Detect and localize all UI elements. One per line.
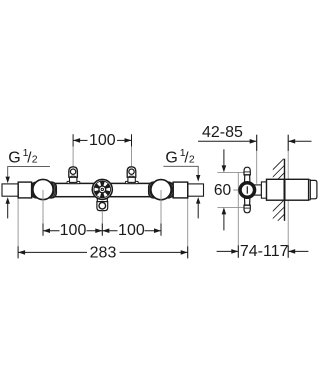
dimension 283 (bottom) (18, 246, 188, 258)
top fitting left: flange (67, 181, 80, 183)
extension line 42-85 left (256, 151, 258, 184)
svg-text:G: G (8, 149, 20, 166)
wall line below body (284, 200, 286, 221)
dimension 100 (top) (73, 134, 131, 146)
valve adapter (261, 182, 266, 198)
svg-text:2: 2 (189, 153, 195, 165)
handwheel hub (99, 186, 106, 193)
left sleeve (18, 182, 31, 198)
extension line right fitting center (131, 146, 133, 166)
leader G 1/2 left (8, 167, 50, 177)
svg-text:100: 100 (60, 222, 87, 239)
wall hatch below (270, 194, 290, 236)
centerline right valve (160, 190, 162, 236)
handwheel outer circle (92, 179, 112, 199)
svg-text:2: 2 (32, 153, 38, 165)
bottom outlet body (97, 202, 108, 211)
svg-text:G: G (165, 149, 177, 166)
handwheel inner ring (94, 181, 111, 198)
knurl arcs left valve (29, 176, 57, 204)
extension line wall bottom (287, 200, 289, 245)
wall line above body (284, 159, 286, 180)
extension line 283 right (187, 198, 189, 258)
main tube (18, 183, 188, 196)
cross handle hub inner (241, 184, 253, 196)
cross handle hub ring (238, 181, 256, 199)
leader G 1/2 right (163, 166, 198, 175)
knurl arcs right valve (147, 176, 175, 204)
extension line left fitting center (72, 146, 74, 166)
left valve circle (33, 179, 53, 199)
extension line 283 left (17, 198, 19, 258)
body end cap (310, 180, 317, 198)
top fitting right: dome (127, 167, 136, 177)
right valve circle (151, 180, 171, 200)
centerline valve axis (233, 189, 263, 191)
svg-text:42-85: 42-85 (202, 124, 243, 141)
top fitting right: port circle (129, 169, 134, 174)
handwheel spoke annulus (94, 181, 111, 198)
top fitting right: shoulder curve (128, 176, 135, 177)
svg-text:100: 100 (118, 222, 145, 239)
top fitting left: neck (70, 177, 77, 183)
bottom outlet port circle (99, 202, 106, 209)
arrow under right pipe (196, 197, 200, 204)
arrow under left pipe (6, 197, 10, 204)
cross handle bottom spoke (244, 205, 250, 213)
handwheel center hole (101, 188, 103, 190)
bottom outlet neck (97, 198, 107, 201)
dimension 100 100 (middle) (43, 224, 161, 236)
svg-text:60: 60 (214, 182, 232, 199)
svg-text:100: 100 (89, 132, 116, 149)
valve neck (253, 185, 261, 195)
body ring (309, 180, 311, 200)
svg-text:283: 283 (90, 244, 117, 261)
centerline wheel (101, 211, 103, 236)
left valve capsule (32, 182, 57, 198)
handwheel spoke gaps (93, 181, 111, 198)
top fitting left: shoulder curve (69, 176, 76, 177)
top fitting left: dome (69, 167, 78, 177)
top fitting right: neck (128, 177, 135, 183)
extension line wall top (287, 151, 289, 179)
left pipe stub G1/2 (2, 184, 19, 196)
right valve capsule (149, 182, 174, 198)
extension line 60 top (217, 171, 243, 173)
svg-text:74-117: 74-117 (240, 243, 289, 260)
right pipe stub G1/2 (188, 184, 204, 196)
wall hatch above (270, 153, 290, 195)
top fitting right: flange (125, 181, 138, 183)
hub center slot (246, 186, 248, 193)
extension line 74-117 left (237, 172, 239, 245)
top fitting left: port circle (70, 169, 75, 174)
cross handle top spoke (244, 167, 250, 175)
wall ring across body (284, 179, 286, 200)
extension line 60 bottom (217, 206, 243, 208)
right sleeve (173, 182, 188, 198)
centerline left valve (42, 190, 44, 236)
valve body (267, 179, 309, 200)
